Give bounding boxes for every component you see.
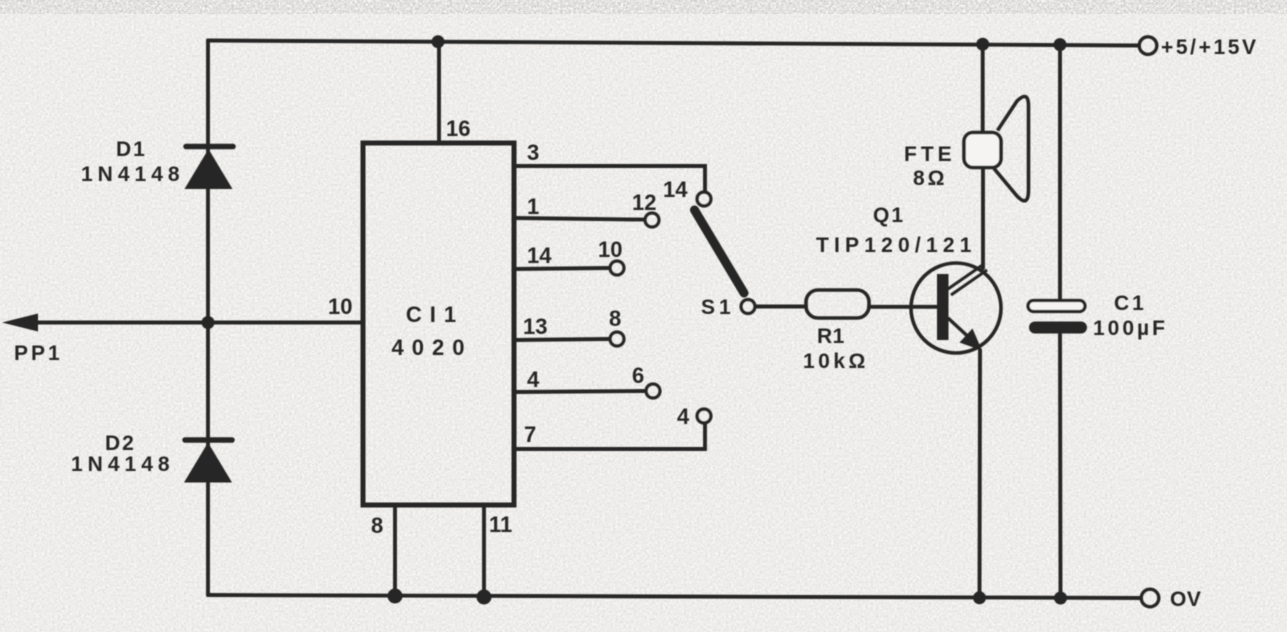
junction node: speaker / top rail — [976, 38, 989, 51]
svg-text:1: 1 — [527, 194, 539, 219]
svg-text:4: 4 — [527, 367, 540, 392]
svg-text:8: 8 — [371, 513, 383, 538]
svg-text:8: 8 — [609, 306, 621, 331]
switch S1 blade — [695, 210, 745, 293]
svg-text:S1: S1 — [701, 296, 735, 319]
svg-text:10kΩ: 10kΩ — [803, 350, 869, 373]
wire pin 16 to top rail — [437, 42, 441, 143]
svg-text:14: 14 — [663, 177, 688, 202]
svg-text:14: 14 — [527, 243, 552, 268]
wire pin 13 horizontal — [514, 339, 609, 340]
switch S1 pole — [741, 300, 755, 314]
svg-text:10: 10 — [328, 294, 352, 319]
IC CI1 4020 body — [363, 143, 514, 505]
wire top rail to speaker — [981, 44, 985, 133]
svg-text:R1: R1 — [817, 325, 845, 348]
speaker FTE driver square — [964, 133, 1001, 168]
svg-text:10: 10 — [598, 237, 622, 262]
transistor Q1 body circle — [911, 263, 1001, 353]
terminal 0V — [1141, 589, 1159, 607]
junction node: pin16 / top rail — [432, 35, 445, 48]
junction node: C1 / bottom rail — [1054, 592, 1067, 605]
wire bottom rail — [208, 595, 1141, 598]
svg-text:TIP120/121: TIP120/121 — [816, 234, 977, 257]
svg-text:D1: D1 — [116, 138, 147, 161]
switch contact 6 — [646, 384, 660, 398]
svg-text:7: 7 — [524, 422, 536, 447]
wire pin 7 horizontal — [514, 424, 705, 449]
svg-text:PP1: PP1 — [14, 342, 63, 365]
wire pin 3 horizontal — [514, 166, 705, 191]
arrow PP1 output — [2, 314, 38, 332]
wire pin 14 horizontal — [514, 268, 609, 269]
wire pin 11 to bottom rail — [482, 505, 486, 597]
svg-text:100µF: 100µF — [1093, 317, 1168, 340]
svg-text:D2: D2 — [105, 432, 136, 455]
svg-text:8Ω: 8Ω — [913, 167, 948, 190]
svg-text:12: 12 — [632, 190, 656, 215]
svg-text:4: 4 — [677, 404, 690, 429]
transistor Q1 collector double line — [948, 264, 987, 295]
capacitor C1 bottom plate — [1029, 322, 1087, 334]
junction node: C1 / top rail — [1054, 38, 1067, 51]
wire pin 8 to bottom rail — [393, 505, 397, 596]
wire pin 10 / PP1 line — [36, 321, 363, 325]
wire pin 4 horizontal — [514, 391, 645, 392]
svg-text:13: 13 — [523, 314, 547, 339]
junction node: PP1 / left bus — [202, 316, 215, 329]
transistor Q1 base bar — [937, 274, 949, 340]
svg-text:FTE: FTE — [904, 143, 956, 166]
wire pin 1 horizontal — [514, 218, 644, 220]
transistor Q1 emitter with arrow — [948, 318, 982, 351]
svg-text:1N4148: 1N4148 — [81, 163, 185, 186]
svg-text:4020: 4020 — [392, 335, 473, 360]
junction node: emitter / bottom rail — [973, 591, 986, 604]
wire left vertical bus — [206, 41, 210, 596]
junction node: pin11 / bottom rail — [477, 590, 492, 605]
svg-text:+5/+15V: +5/+15V — [1161, 36, 1259, 59]
svg-text:C1: C1 — [1114, 292, 1147, 315]
svg-text:CI1: CI1 — [406, 302, 464, 327]
wire Q1 emitter to bottom rail — [978, 350, 982, 598]
diode D2 — [184, 440, 232, 483]
wire speaker to Q1 collector — [981, 168, 985, 268]
diode D1 — [185, 147, 234, 190]
switch contact 10 — [610, 261, 624, 275]
resistor R1 body — [806, 290, 869, 318]
svg-text:11: 11 — [489, 512, 512, 537]
wire C1 top — [1058, 45, 1062, 302]
wire R1 to Q1 base — [869, 305, 938, 309]
svg-text:3: 3 — [527, 140, 539, 165]
junction node: pin8 / bottom rail — [388, 589, 403, 604]
wire S1 pole to R1 — [756, 305, 806, 309]
switch contact 8 — [610, 332, 624, 346]
capacitor C1 top plate — [1028, 301, 1085, 312]
switch contact 14 — [697, 192, 711, 206]
switch contact 12 — [645, 213, 659, 227]
speaker FTE cone — [994, 97, 1029, 201]
wire C1 bottom — [1058, 330, 1062, 598]
svg-text:1N4148: 1N4148 — [71, 453, 175, 476]
switch contact 4 — [697, 409, 711, 423]
terminal +5/+15V — [1139, 37, 1157, 55]
svg-text:16: 16 — [446, 116, 470, 141]
svg-text:OV: OV — [1170, 588, 1201, 611]
wire top rail — [208, 41, 1139, 46]
svg-text:Q1: Q1 — [873, 204, 905, 227]
svg-text:6: 6 — [632, 363, 644, 388]
